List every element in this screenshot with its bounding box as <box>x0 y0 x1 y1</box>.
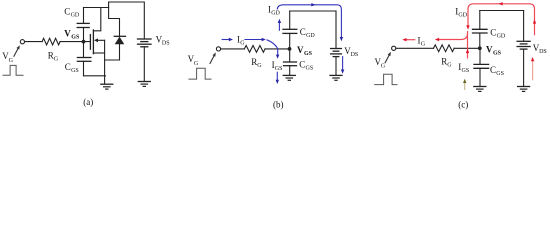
input terminal circle (a) <box>20 40 24 44</box>
svg-text:GS: GS <box>71 35 80 41</box>
red arrow up into battery bottom (c) <box>532 61 534 81</box>
svg-text:GD: GD <box>458 13 467 19</box>
svg-text:GD: GD <box>271 11 280 17</box>
vertical gate-node wire (a) <box>83 28 85 58</box>
svg-text:G: G <box>194 61 199 67</box>
wire resistor to gate (a) <box>60 41 90 43</box>
svg-text:C: C <box>490 28 496 38</box>
svg-text:C: C <box>299 60 305 70</box>
pulse waveform V_G (b) <box>189 68 211 79</box>
pulse waveform V_G (a) <box>3 65 23 75</box>
blue current arrows (b) <box>222 3 345 84</box>
svg-text:C: C <box>64 7 70 17</box>
svg-text:(a): (a) <box>83 97 93 107</box>
resistor R_G zigzag (c) <box>434 45 455 52</box>
wire circle to resistor (b) <box>221 48 245 50</box>
MOSFET Q1 gate bar (a) <box>89 35 91 50</box>
svg-text:G: G <box>447 63 452 69</box>
red arrow up from C_GS to node (c) <box>466 49 469 53</box>
MOSFET Q1 drain lead (a) <box>93 8 100 31</box>
svg-text:GS: GS <box>304 51 313 57</box>
wire circle to resistor (c) <box>396 47 434 49</box>
arrow to input node (b) <box>210 56 214 64</box>
diode D1 cathode branch wire (a) <box>109 2 120 36</box>
resistor R_G zigzag (a) <box>42 38 60 45</box>
blue arrow I_G long (b) <box>244 39 261 41</box>
MOSFET Q1 channel bar (a) <box>92 30 94 54</box>
svg-text:DS: DS <box>162 41 170 47</box>
MOSFET Q1 body arrow (a) <box>94 38 98 42</box>
red loop V_DS to C_GD (c) <box>468 4 535 35</box>
blue arrow I_G short (b) <box>222 39 229 41</box>
gate node junction dot (a) <box>82 40 86 44</box>
capacitor C_GS (b) <box>289 49 291 62</box>
red current arrows (c) <box>402 2 536 90</box>
svg-text:G: G <box>9 58 14 64</box>
top rail (b) <box>290 10 336 12</box>
capacitor C_GD (c) <box>479 33 481 48</box>
svg-text:C: C <box>65 62 71 72</box>
svg-text:V: V <box>486 44 493 54</box>
wire resistor to node (c) <box>454 47 480 49</box>
ground under C_GS (b) <box>283 74 295 76</box>
ground under C_GS (c) <box>474 86 486 88</box>
capacitor C_GD (a) <box>77 22 89 24</box>
MOSFET Q1 source lead (a) <box>93 52 104 54</box>
svg-text:G: G <box>54 56 59 62</box>
svg-text:(b): (b) <box>273 100 284 110</box>
diode D1 (a) <box>114 35 125 37</box>
olive arrow up from ground into C_GS (c) <box>464 82 466 90</box>
node V_GS dot (c) <box>478 46 482 50</box>
blue arrow below battery (b) <box>342 56 344 70</box>
battery V_DS (a) <box>138 38 152 40</box>
svg-text:C: C <box>490 65 496 75</box>
blue loop C_GD to V_DS (b) <box>277 5 341 38</box>
source vertical wire (a) <box>104 40 106 84</box>
ground under battery (b) <box>330 74 342 76</box>
arrow to input node (c) <box>385 55 389 63</box>
red arrow from node through R_G (c) <box>467 31 469 59</box>
diode bottom link wire (a) <box>105 59 120 61</box>
svg-text:V: V <box>297 45 304 55</box>
wire circle to resistor (a) <box>25 41 42 43</box>
ground under battery (c) <box>518 86 530 88</box>
capacitor C_GS (a) <box>77 57 91 59</box>
svg-text:G: G <box>421 41 426 47</box>
svg-text:GS: GS <box>275 66 283 72</box>
svg-text:DS: DS <box>351 52 359 58</box>
top rail to battery (a) <box>109 2 145 39</box>
ground under battery (a) <box>138 81 150 83</box>
top rail (c) <box>480 10 524 12</box>
svg-text:GS: GS <box>462 68 470 74</box>
blue curve into C_GS branch (b) <box>267 40 278 56</box>
wire resistor to node (b) <box>265 48 289 50</box>
svg-text:GS: GS <box>306 66 314 72</box>
svg-text:V: V <box>64 29 71 39</box>
red arrow I_G toward source (c) <box>406 39 415 41</box>
svg-text:DS: DS <box>539 49 547 55</box>
svg-text:GS: GS <box>493 50 502 56</box>
top rail C_GD to drain junction (a) <box>84 7 109 9</box>
ground under source (a) <box>101 83 113 85</box>
svg-text:G: G <box>381 64 386 70</box>
blue arrow up through C_GD (b) <box>278 22 280 31</box>
node V_GS dot (b) <box>288 47 292 51</box>
svg-text:GS: GS <box>496 71 504 77</box>
resistor R_G zigzag (b) <box>244 46 265 53</box>
wire C_GS bottom to source node (a) <box>84 75 106 77</box>
capacitor C_GD (b) <box>289 33 291 49</box>
svg-text:GD: GD <box>71 13 80 19</box>
arrow to input node (a) <box>14 49 18 57</box>
input terminal circle (c) <box>392 46 396 50</box>
battery V_DS (c) <box>523 11 525 42</box>
svg-text:GD: GD <box>497 34 506 40</box>
svg-text:G: G <box>240 40 245 46</box>
svg-text:GS: GS <box>71 68 79 74</box>
capacitor C_GS (c) <box>479 48 481 64</box>
input terminal circle (b) <box>216 47 220 51</box>
svg-text:C: C <box>300 27 306 37</box>
battery V_DS (b) <box>335 11 337 49</box>
svg-text:GD: GD <box>306 33 315 39</box>
svg-text:G: G <box>257 63 262 69</box>
blue arrow through C_GS to ground (b) <box>276 72 278 81</box>
pulse waveform V_G (c) <box>375 74 397 84</box>
svg-text:(c): (c) <box>458 99 468 109</box>
